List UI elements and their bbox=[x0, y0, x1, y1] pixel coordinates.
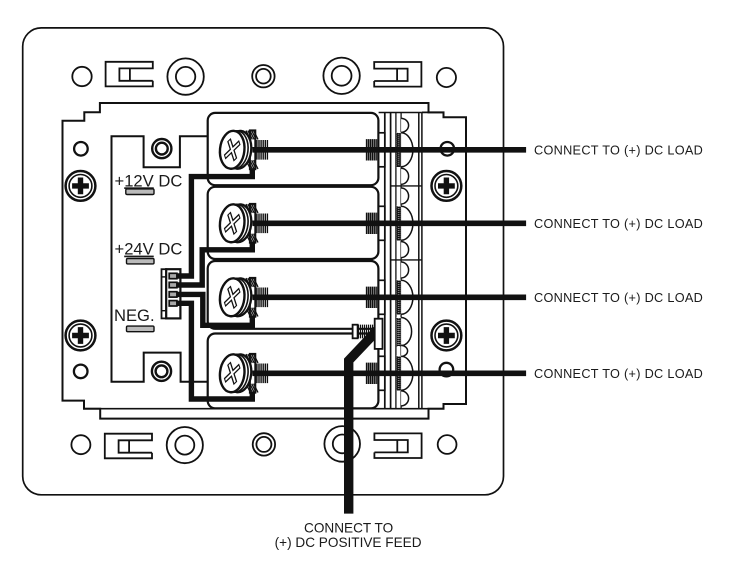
connector pin 2 bbox=[169, 282, 177, 287]
wall plate outline bbox=[23, 28, 504, 495]
terminal block NEG bbox=[127, 326, 155, 332]
washer plate row 4 bbox=[379, 356, 385, 390]
right bracket edge lines bbox=[418, 112, 420, 408]
switch module 2 body bbox=[208, 187, 379, 259]
spring clip row 3 bbox=[401, 280, 413, 314]
spring clip row 1 bbox=[401, 133, 413, 167]
clip small top bbox=[401, 118, 408, 132]
wire jumper: pin3 to module3 screw bbox=[177, 294, 252, 325]
terminal strip bar bbox=[379, 113, 422, 409]
thread coil row 2 bbox=[367, 213, 378, 234]
wire to DC load 2 bbox=[253, 221, 527, 227]
thread coil row 4 bbox=[367, 363, 378, 384]
terminal block 24V bbox=[127, 259, 155, 264]
strip contact hatch row 2 bbox=[396, 206, 401, 241]
bottom-right mounting hole bbox=[438, 435, 457, 454]
spring clip feed row bbox=[401, 318, 412, 346]
clip below row 2 bbox=[401, 242, 409, 258]
wire jumper: pin2 to module2 screw bbox=[177, 237, 252, 286]
terminal block 12V bbox=[126, 189, 154, 195]
right bracket lower hole bbox=[440, 363, 454, 377]
wire +12V jumper: pin1 to module1 screw bbox=[177, 163, 252, 276]
bottom screw boss left bbox=[167, 427, 203, 463]
connector J1 body bbox=[162, 269, 181, 318]
svg-text:(+) DC POSITIVE FEED: (+) DC POSITIVE FEED bbox=[275, 535, 422, 550]
feed terminal screw head bbox=[353, 325, 358, 339]
strip division line 1 bbox=[391, 185, 422, 187]
left bracket upper screw bbox=[66, 171, 96, 201]
connector pin 4 bbox=[169, 301, 177, 306]
module 3 terminal screw bbox=[218, 277, 267, 317]
yoke top line right segment bbox=[422, 111, 444, 113]
right bracket upper screw bbox=[432, 171, 462, 201]
strip contact hatch row 1 bbox=[396, 132, 401, 167]
strip contact hatch row 3 bbox=[396, 280, 401, 315]
top screw boss right bbox=[323, 58, 359, 94]
panel bottom grommet bbox=[152, 362, 171, 381]
module 4 terminal screw bbox=[218, 353, 267, 393]
module 1 terminal screw bbox=[218, 130, 267, 170]
panel top grommet bbox=[152, 139, 171, 158]
bottom-left mounting hole bbox=[71, 435, 90, 454]
clip below row 1 bbox=[401, 168, 409, 184]
top-right keyhole slot bbox=[374, 62, 421, 87]
top screw boss left bbox=[167, 58, 203, 94]
svg-text:CONNECT TO (+) DC LOAD: CONNECT TO (+) DC LOAD bbox=[534, 367, 703, 381]
left bracket lower hole bbox=[74, 365, 88, 379]
wire DC positive feed bbox=[349, 328, 380, 514]
clip above row 3 bbox=[401, 262, 409, 278]
top-left keyhole slot bbox=[106, 62, 153, 87]
label panel outline bbox=[112, 136, 210, 382]
clip below feed bbox=[401, 345, 408, 356]
bottom-left keyhole slot bbox=[105, 434, 152, 459]
thread coil row 3 bbox=[367, 287, 378, 308]
svg-text:CONNECT TO: CONNECT TO bbox=[304, 520, 393, 535]
svg-text:+24V DC: +24V DC bbox=[115, 240, 183, 259]
strip division line 2 bbox=[391, 259, 422, 261]
wire to DC load 4 bbox=[253, 370, 527, 376]
svg-text:NEG.: NEG. bbox=[114, 306, 155, 325]
bottom-right keyhole slot bbox=[374, 433, 421, 458]
bottom small grommet bbox=[253, 433, 275, 455]
right bracket lower screw bbox=[432, 321, 462, 351]
mounting yoke stepped outline bbox=[63, 103, 467, 419]
left bracket upper hole bbox=[74, 142, 88, 156]
connector pin 3 bbox=[169, 292, 177, 297]
svg-text:CONNECT TO (+) DC LOAD: CONNECT TO (+) DC LOAD bbox=[534, 217, 703, 231]
clip below row 4 bbox=[401, 391, 409, 406]
strip contact hatch row 4 bbox=[396, 356, 401, 391]
clip above row 2 bbox=[401, 188, 409, 204]
wire to DC load 1 bbox=[253, 147, 527, 153]
feed screw thread coil bbox=[359, 325, 373, 339]
svg-text:CONNECT TO (+) DC LOAD: CONNECT TO (+) DC LOAD bbox=[534, 143, 703, 157]
switch module 4 body bbox=[208, 334, 379, 409]
washer plate row 2 bbox=[379, 206, 385, 240]
washer plate row 3 bbox=[379, 280, 385, 314]
spring clip row 2 bbox=[401, 206, 413, 240]
feed washer plate bbox=[375, 319, 383, 349]
svg-text:+12V DC: +12V DC bbox=[115, 171, 183, 190]
top-left mounting hole bbox=[72, 67, 91, 86]
wire to DC load 3 bbox=[253, 294, 527, 300]
switch module 3 body bbox=[208, 261, 379, 329]
wire jumper: pin4 to module4 screw bbox=[177, 303, 252, 399]
yoke inner bottom line bbox=[84, 408, 444, 410]
connector pin 1 bbox=[169, 273, 177, 278]
module 2 terminal screw bbox=[218, 203, 267, 243]
svg-text:CONNECT TO (+) DC LOAD: CONNECT TO (+) DC LOAD bbox=[534, 291, 703, 305]
top-right mounting hole bbox=[437, 68, 456, 87]
bottom screw boss right bbox=[324, 426, 360, 462]
switch module 1 body bbox=[208, 113, 379, 185]
spring clip row 4 bbox=[401, 356, 413, 390]
left bracket lower screw bbox=[66, 321, 96, 351]
top small grommet bbox=[252, 65, 274, 87]
washer plate row 1 bbox=[379, 133, 385, 167]
thread coil row 1 bbox=[367, 139, 378, 160]
strip contact hatch feed row bbox=[396, 318, 401, 346]
right bracket upper hole bbox=[441, 142, 455, 156]
